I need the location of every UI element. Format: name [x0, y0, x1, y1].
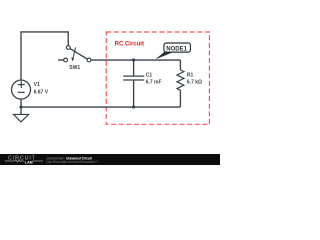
svg-text:V1: V1: [34, 82, 40, 88]
svg-text:RC Circuit: RC Circuit: [115, 42, 144, 48]
svg-text:6.7 kΩ: 6.7 kΩ: [187, 80, 202, 86]
svg-text:LAB: LAB: [25, 160, 33, 165]
svg-text:http://circuitlab.com/csn3nxvu: http://circuitlab.com/csn3nxvua6sv7/: [47, 160, 98, 164]
svg-text:6.7 mF: 6.7 mF: [146, 80, 162, 86]
svg-text:6.67 V: 6.67 V: [34, 90, 49, 96]
svg-text:R1: R1: [187, 72, 194, 78]
svg-text:C1: C1: [146, 72, 153, 78]
svg-text:NODE1: NODE1: [166, 46, 187, 52]
svg-text:SW1: SW1: [69, 65, 80, 71]
